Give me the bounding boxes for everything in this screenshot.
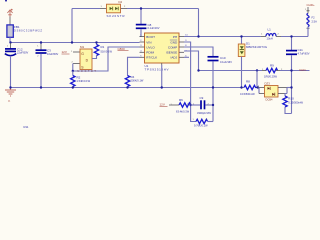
svg-text:DS80C32BPW2Z: DS80C32BPW2Z [14,28,42,32]
svg-text:0.1uF/16V: 0.1uF/16V [148,26,160,30]
svg-text:M1: M1 [80,45,84,49]
U1 pin names [146,35,178,60]
C10 labels [220,56,232,64]
ground net text [8,99,11,103]
svg-text:TPS92513HV: TPS92513HV [145,67,169,71]
top-left corner speck [5,0,7,1]
capacitor C10 [208,57,219,122]
svg-text:L1: L1 [268,28,272,32]
DZ3 labels [265,82,273,102]
node C11 bottom row [290,69,292,71]
svg-text:200K/0.1W: 200K/0.1W [131,79,144,83]
svg-text:22uF/50V: 22uF/50V [17,51,29,55]
svg-text:MBRS3100T3G: MBRS3100T3G [246,45,267,49]
svg-text:CHD+: CHD+ [307,3,315,7]
svg-text:COMP: COMP [168,45,177,49]
node gnd C3 [40,86,42,88]
node C11 top [290,35,292,37]
node 12V rail left [9,41,11,43]
R7 labels [193,119,209,127]
node gnd D1 [240,86,242,88]
wire ISENSE net [184,51,199,71]
svg-text:R9: R9 [270,64,274,68]
net label C800 [118,47,129,51]
node C8 top [140,7,142,9]
wire U1 thermal pad to ground [161,65,163,88]
bottom-left text R11 [24,125,29,129]
svg-text:D4: D4 [119,0,123,4]
svg-text:10uF/50V: 10uF/50V [47,52,59,56]
R6 labels [176,98,195,113]
svg-text:PDIM: PDIM [146,51,154,55]
svg-text:R1: R1 [101,45,105,49]
node gnd R2 [72,86,74,88]
svg-text:C10: C10 [220,56,226,60]
node M1 source junction [72,70,74,72]
net label CHD+ [307,3,315,7]
resistor R2 [71,71,75,88]
C3 labels [37,45,58,57]
resistor R8 [244,85,259,89]
svg-text:R6: R6 [179,98,183,102]
svg-text:CHD-: CHD- [299,68,307,72]
capacitor C12 (polarized) [5,43,16,88]
wire top bootstrap line [72,9,199,43]
svg-text:R2: R2 [77,76,81,80]
wire COMP to C10 [184,47,213,56]
node gnd C12 [9,86,11,88]
C11 labels [298,48,310,56]
R1 labels [101,45,113,54]
inductor L1 [261,33,281,36]
svg-text:10uH: 10uH [267,36,273,40]
net label 12V (gate of M1) [62,50,74,54]
capacitor C11 [286,37,297,114]
U1 pin numbers [140,35,188,58]
svg-text:BOOT: BOOT [146,35,155,39]
fuse F2 [307,7,310,37]
svg-text:12V: 12V [62,50,67,54]
capacitor C9 [191,100,213,109]
node gnd R4 [126,86,128,88]
svg-text:DZ3: DZ3 [265,82,271,86]
F2 labels [305,9,317,23]
power port 12V input (top-left, red) [7,9,12,25]
svg-text:R8: R8 [246,79,250,83]
R10 labels [288,96,303,104]
svg-text:1.54K/0.1W: 1.54K/0.1W [77,79,91,83]
ground rail [11,87,245,89]
FB1 labels [14,25,42,32]
svg-text:0.15/500mW: 0.15/500mW [288,100,303,104]
svg-text:DCB4: DCB4 [266,98,273,102]
svg-text:ISENSE: ISENSE [166,51,177,55]
svg-text:C11: C11 [298,48,304,52]
svg-text:0.15/500mW: 0.15/500mW [240,92,255,96]
op-amp U1 TPS92513HV regulator body [140,33,185,65]
R8 labels [240,79,260,96]
M1 labels [72,45,97,73]
wire M1 source down [72,64,74,72]
svg-text:UVLO: UVLO [146,45,155,49]
capacitor C8 [136,9,147,37]
L1 labels [261,28,280,41]
svg-text:51K/0.1W: 51K/0.1W [101,50,113,54]
svg-text:0.1uF/16V: 0.1uF/16V [220,60,232,64]
svg-text:C800: C800 [118,47,126,51]
svg-text:R11: R11 [24,125,29,129]
svg-text:VIN: VIN [146,40,151,44]
svg-text:GND: GND [170,40,178,44]
wire GND pin to comp node [184,42,196,122]
wire PH output line [184,36,308,38]
node gnd C10 [212,86,214,88]
C8 labels [148,23,160,30]
svg-text:R10: R10 [288,96,294,100]
svg-text:1R0/0.25W: 1R0/0.25W [264,75,278,79]
svg-text:C9: C9 [200,96,204,100]
node sense drop [256,69,258,71]
svg-text:4.7uF/63V: 4.7uF/63V [298,52,310,56]
wire IADJ stub [184,56,189,58]
svg-text:RT/CLK: RT/CLK [146,56,158,60]
node R1 top [95,41,97,43]
R4 labels [131,75,144,83]
ferrite bead FB1 [7,25,13,43]
R2 labels [77,76,91,84]
node sense row left [197,69,199,71]
R9 labels [262,64,283,79]
node DZ3 right rail [290,86,292,88]
capacitor C3 [36,43,47,88]
resistor R1 [92,43,99,59]
node gnd U1 pad [161,86,163,88]
svg-text:3300pF/16V: 3300pF/16V [197,111,211,115]
svg-text:IADJ: IADJ [170,56,177,60]
ground symbol [5,88,16,97]
net label CHD- [299,68,307,72]
svg-text:2.5A: 2.5A [312,19,318,23]
diode D1 [238,37,245,88]
D1 labels [246,41,267,49]
U1 labels [145,64,169,72]
wire sense drop to R8 node [256,71,258,88]
resistor R6 [169,103,191,107]
transistor M1 (MOSFET) [73,49,97,70]
svg-text:63.4k/0.1W: 63.4k/0.1W [176,109,190,113]
C12 labels [7,46,29,55]
node C3 top [40,41,42,43]
svg-text:9.76K/0.1W: 9.76K/0.1W [194,124,208,128]
svg-text:R4: R4 [131,75,135,79]
D4 labels [101,0,127,18]
resistor R7 [196,119,208,123]
svg-text:V.: V. [8,99,11,103]
resistor R4 [125,76,129,88]
node PH boot junction [197,35,199,37]
svg-text:G: G [81,52,84,56]
net label 12V (comp row) [160,103,173,107]
wire RT/CLK net [128,57,140,75]
node D1 top [240,35,242,37]
C9 labels [197,96,211,115]
node D4 branch on 12V rail [71,41,73,43]
resistor R9 [262,68,280,72]
wire sense row [199,70,310,72]
svg-text:12V: 12V [160,103,165,107]
wire 12V rail [11,42,140,44]
node comp mid [189,104,191,106]
node R8 right [257,86,259,88]
node comp right [212,104,214,106]
zener DZ3 [258,86,292,98]
svg-text:PH: PH [173,35,177,39]
diode D4 [100,4,127,13]
svg-text:SK20STR: SK20STR [107,14,126,18]
resistor R10 [283,94,292,114]
wire UVLO net [73,47,140,71]
